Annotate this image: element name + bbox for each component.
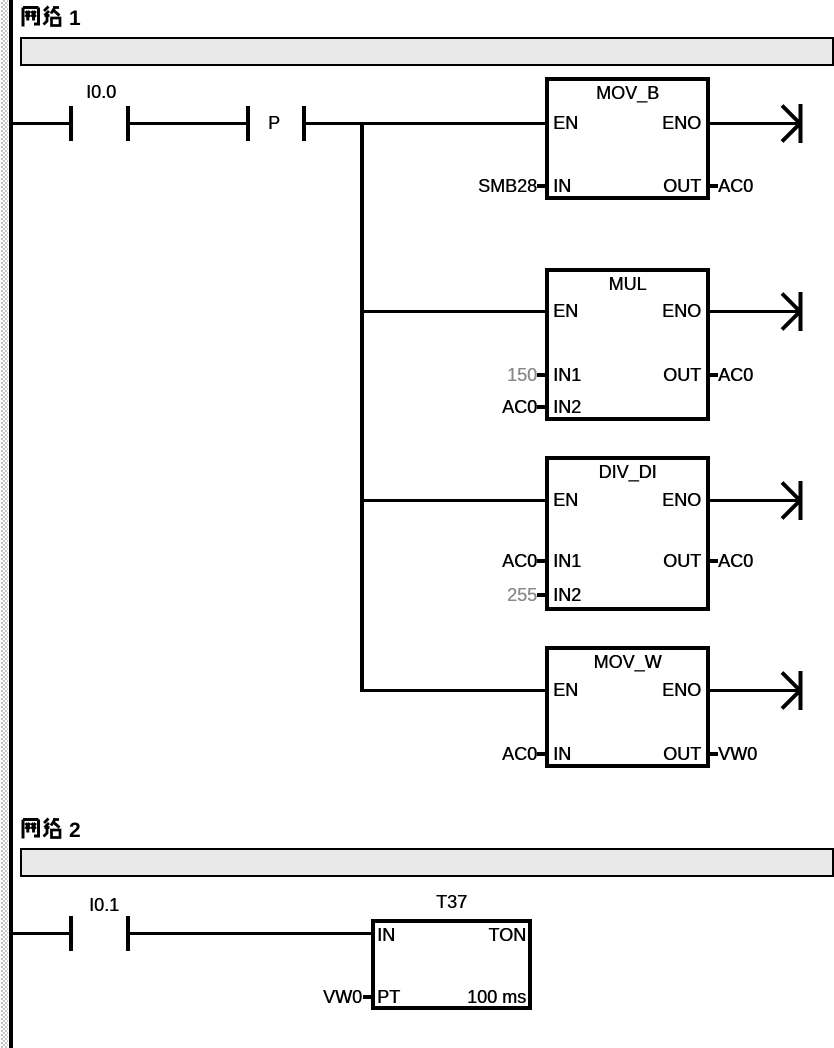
block MOV_W — [545, 646, 710, 768]
label MUL title — [545, 273, 710, 295]
tick MOV_W OUT to VW0 — [709, 752, 718, 756]
tick 255 to IN2 — [537, 593, 546, 597]
pin ENO of DIV_DI — [662, 489, 701, 511]
label DIV_DI title — [545, 461, 710, 483]
pin IN2 of MUL — [553, 396, 581, 418]
pin IN1 of MUL — [553, 364, 581, 386]
tick AC0 to IN1 — [537, 559, 546, 563]
pin IN of T37 — [377, 924, 395, 946]
left power rail — [9, 0, 13, 1048]
block DIV_DI — [545, 456, 710, 611]
label TON — [488, 924, 526, 946]
contact P right bar — [302, 106, 306, 141]
label 100 ms time base — [467, 986, 526, 1008]
pin IN1 of DIV_DI — [553, 550, 581, 572]
arrow MUL rung end — [766, 289, 806, 334]
pin OUT of MOV_W — [663, 743, 701, 765]
wire DIV_DI ENO out — [710, 499, 800, 502]
label P — [260, 112, 288, 134]
wire contact P to MOV_B EN — [306, 122, 546, 125]
wire MOV_B ENO out — [710, 122, 800, 125]
label I0.0 — [57, 81, 145, 103]
block T37 TON — [371, 919, 532, 1010]
network 1 title 网络 1 — [21, 5, 111, 29]
label I0.1 — [60, 894, 148, 916]
operand AC0 at MOV_B OUT — [718, 175, 753, 197]
arrow DIV_DI rung end — [766, 478, 806, 523]
pin OUT of MOV_B — [663, 175, 701, 197]
pin ENO of MOV_B — [662, 112, 701, 134]
arrow MOV_W rung end — [766, 668, 806, 713]
branch wire to MUL EN — [360, 310, 546, 313]
pin EN of MOV_B — [553, 112, 578, 134]
tick SMB28 to IN — [537, 184, 546, 188]
network 2 title 网络 2 — [21, 817, 111, 841]
pin IN of MOV_B — [553, 175, 571, 197]
left dotted splitter strip — [1, 0, 8, 1048]
pin OUT of DIV_DI — [663, 550, 701, 572]
pin ENO of MUL — [662, 300, 701, 322]
arrow MOV_B rung end — [766, 101, 806, 146]
wire rail to contact I0.0 — [13, 122, 69, 125]
pin IN of MOV_W — [553, 743, 571, 765]
contact I0.0 left bar — [69, 106, 73, 141]
tick OUT to AC0 — [709, 184, 718, 188]
operand AC0 at DIV_DI IN1 — [502, 550, 537, 572]
tick 150 to IN1 — [537, 373, 546, 377]
contact I0.1 right bar — [126, 916, 130, 951]
network 2 comment bar — [20, 848, 834, 877]
wire MUL ENO out — [710, 310, 800, 313]
pin OUT of MUL — [663, 364, 701, 386]
operand 150 at MUL IN1 — [507, 364, 537, 386]
operand 255 at DIV_DI IN2 — [507, 584, 537, 606]
network 1 comment bar — [20, 37, 834, 66]
operand AC0 at DIV_DI OUT — [718, 550, 753, 572]
tick VW0 to PT — [363, 995, 372, 999]
contact I0.0 right bar — [126, 106, 130, 141]
pin EN of DIV_DI — [553, 489, 578, 511]
wire contact I0.0 to contact P — [130, 122, 246, 125]
branch vertical wire — [360, 122, 364, 692]
svg-text:1: 1 — [69, 7, 81, 29]
branch wire to DIV_DI EN — [360, 499, 546, 502]
operand AC0 at MUL IN2 — [502, 396, 537, 418]
label MOV_B title — [545, 82, 710, 104]
operand VW0 at T37 PT — [323, 986, 362, 1008]
tick MUL OUT to AC0 — [709, 373, 718, 377]
operand AC0 at MUL OUT — [718, 364, 753, 386]
operand SMB28 — [478, 175, 537, 197]
label T37 above block — [371, 891, 532, 913]
pin PT of T37 — [377, 986, 400, 1008]
tick AC0 to IN2 — [537, 405, 546, 409]
wire rail to contact I0.1 — [13, 932, 69, 935]
contact P left bar — [246, 106, 250, 141]
contact I0.1 left bar — [69, 916, 73, 951]
block MOV_B — [545, 77, 710, 200]
wire contact I0.1 to T37 IN — [130, 932, 371, 935]
label MOV_W title — [545, 651, 710, 673]
operand AC0 at MOV_W IN — [502, 743, 537, 765]
pin IN2 of DIV_DI — [553, 584, 581, 606]
pin EN of MUL — [553, 300, 578, 322]
block MUL — [545, 268, 710, 421]
wire MOV_W ENO out — [710, 689, 800, 692]
pin EN of MOV_W — [553, 679, 578, 701]
operand VW0 at MOV_W OUT — [718, 743, 757, 765]
tick AC0 to IN — [537, 752, 546, 756]
svg-text:2: 2 — [69, 819, 81, 841]
branch wire to MOV_W EN — [360, 689, 546, 692]
tick DIV_DI OUT to AC0 — [709, 559, 718, 563]
pin ENO of MOV_W — [662, 679, 701, 701]
